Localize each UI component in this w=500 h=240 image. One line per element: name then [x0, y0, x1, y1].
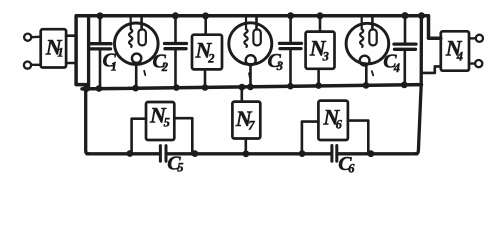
node: C1 top junction [97, 12, 104, 19]
node: N5 left leg junction [126, 150, 133, 157]
svg-text:7: 7 [248, 119, 255, 133]
tick mark under V3 [372, 71, 373, 75]
svg-text:4: 4 [456, 49, 463, 63]
svg-text:5: 5 [164, 116, 170, 130]
tube V1 filament lead + zigzag [129, 16, 132, 47]
node: C2 bottom junction [173, 84, 180, 91]
wire: V1 cathode to mid rail [135, 63, 138, 88]
capacitor C2 [165, 16, 187, 87]
node: C2 top junction [172, 12, 179, 19]
wire: left inner vertical bar and descender to bottom loop [86, 16, 89, 154]
wire: N4 lower pin to right bar [421, 66, 440, 73]
wire: input upper stub [31, 36, 40, 39]
box N6 [318, 101, 348, 140]
wire: N7 bottom lead [245, 139, 248, 154]
svg-text:6: 6 [348, 161, 355, 175]
capacitor C6 (series, in bottom rail) [330, 146, 333, 162]
svg-text:1: 1 [57, 46, 63, 60]
box N1 [41, 29, 66, 67]
wire: bottom rail segment 2 (C5 to C6) [167, 152, 330, 155]
node: C4 top junction [402, 12, 409, 19]
box N5 [146, 102, 174, 140]
node: V1 cathode junction [132, 85, 139, 92]
box N3 [306, 32, 335, 69]
tube V1 anode lead + loop [140, 16, 143, 29]
svg-text:2: 2 [161, 60, 168, 74]
wire: input lower stub [31, 64, 41, 66]
node: N2 top junction [202, 12, 209, 19]
svg-text:6: 6 [336, 118, 343, 132]
box N2 [192, 35, 222, 70]
terminal: input upper [24, 34, 31, 41]
wire: top rail with left down-turn and right turn to N4 upper pin [76, 16, 441, 85]
wire: N5 right leg [174, 118, 192, 152]
tube V3 filament lead + zigzag [360, 16, 363, 47]
wire: V3 cathode to mid rail [365, 64, 368, 85]
capacitor C3 [280, 16, 302, 86]
node: V2 cathode junction [247, 84, 254, 91]
wire: right vertical from top rail through mid rail down to bottom loop [416, 16, 422, 154]
wire: bottom rail segment 1 (left corner to C5) [87, 152, 159, 155]
tube V3 anode lead + loop [371, 16, 374, 29]
wire: N1 lower to left bar [66, 62, 76, 65]
wire: N3 bottom lead [317, 69, 320, 86]
wire: N6 right leg [348, 121, 368, 153]
wire: N7 top lead [241, 87, 244, 101]
tube V3 envelope [346, 23, 389, 64]
svg-text:4: 4 [393, 61, 400, 75]
node: left bars mid junction [83, 85, 90, 92]
tick mark under V2 [248, 73, 251, 77]
box N4 [441, 31, 469, 70]
wire: N5 left leg [132, 119, 146, 153]
wire: V2 cathode to mid rail [249, 64, 252, 87]
tube V2 cathode circle [246, 55, 256, 65]
tick mark under V1 [144, 71, 145, 75]
node: N7 top junction [239, 84, 246, 91]
tube V1 cathode circle [132, 54, 141, 63]
svg-text:2: 2 [207, 52, 214, 66]
wire: bottom rail segment 3 (C6 to right corner) [338, 152, 417, 155]
svg-text:5: 5 [177, 161, 183, 175]
node: N3 bottom junction [315, 82, 322, 89]
wire: output lower stub [469, 62, 475, 64]
wire: middle rail [82, 85, 422, 89]
wire: output upper stub [469, 37, 476, 40]
capacitor C1 [89, 16, 111, 88]
capacitor C5 (series, in bottom rail) [159, 146, 162, 162]
box N7 [232, 102, 260, 139]
terminal: output upper [476, 35, 483, 42]
node: N5 right leg junction [192, 150, 199, 157]
tube V1 envelope [115, 23, 159, 64]
terminal: input lower [24, 62, 31, 69]
wire: N3 top lead [319, 16, 322, 32]
capacitor C4 [394, 16, 416, 85]
tube V2 anode lead + loop [255, 16, 258, 29]
tube V2 filament lead + zigzag [244, 16, 247, 47]
node: C3 bottom junction [287, 83, 294, 90]
node: N2 bottom junction [202, 84, 209, 91]
node: V3 cathode junction [363, 82, 370, 89]
svg-text:3: 3 [322, 50, 329, 64]
node: N3 top junction [317, 12, 324, 19]
node: C3 top junction [287, 12, 294, 19]
wire: N6 left leg [302, 122, 319, 153]
terminal: output lower [475, 60, 482, 67]
node: N6 left leg junction [299, 150, 306, 157]
node: C1 bottom junction [96, 85, 103, 92]
svg-text:1: 1 [111, 60, 117, 74]
svg-text:3: 3 [276, 59, 283, 73]
tube V3 cathode circle [360, 56, 370, 66]
wire: N2 bottom lead [204, 69, 207, 87]
node: N7 bottom junction [243, 150, 250, 157]
tube V2 envelope [229, 23, 272, 65]
wire: N2 top lead [204, 16, 207, 35]
node: C4 bottom junction [401, 82, 408, 89]
node: right bar top junction [418, 12, 425, 19]
wire: N1 upper to left bar [66, 34, 76, 37]
node: N6 right leg junction [368, 150, 375, 157]
